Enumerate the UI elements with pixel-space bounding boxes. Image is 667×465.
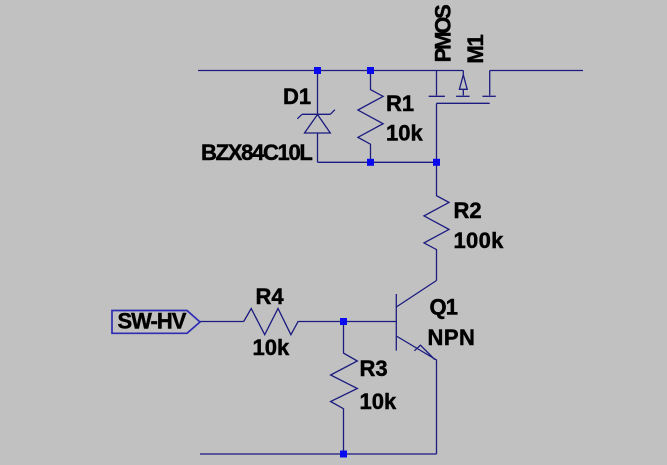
wire bottom rail: [200, 453, 437, 455]
svg-text:PMOS: PMOS: [430, 5, 455, 63]
svg-text:10k: 10k: [360, 389, 397, 414]
wire top rail right: [490, 70, 583, 72]
svg-text:10k: 10k: [253, 335, 290, 360]
svg-text:M1: M1: [463, 34, 488, 63]
wire base: [344, 321, 397, 323]
svg-text:R3: R3: [360, 356, 388, 381]
resistor R3: [331, 322, 358, 455]
wire gate to node: [436, 103, 438, 162]
transistor Q1 emitter arrow: [414, 345, 434, 359]
svg-text:D1: D1: [283, 84, 311, 109]
node D1 top: [314, 67, 321, 74]
resistor R1: [358, 71, 383, 163]
resistor R2: [424, 162, 449, 280]
transistor M1 body arrow: [459, 71, 467, 96]
transistor M1 source bar: [429, 95, 445, 97]
diode D1 zener: [297, 71, 335, 163]
transistor M1 source lead: [436, 71, 438, 96]
node gate junction: [433, 159, 440, 166]
transistor M1 gate plate: [437, 102, 490, 104]
node base junction: [340, 318, 347, 325]
transistor M1 drain bar: [482, 95, 495, 97]
svg-text:100k: 100k: [454, 228, 505, 253]
svg-text:BZX84C10L: BZX84C10L: [201, 140, 312, 165]
svg-text:Q1: Q1: [430, 295, 458, 320]
svg-text:SW-HV: SW-HV: [118, 309, 187, 334]
transistor M1 drain lead: [489, 71, 491, 96]
flag SW-HV: [112, 311, 200, 334]
wire from flag: [200, 321, 244, 323]
svg-text:R1: R1: [386, 91, 414, 116]
node R1 top: [367, 67, 374, 74]
svg-text:R4: R4: [256, 284, 285, 309]
node R3 bottom: [340, 451, 347, 458]
wire top rail left: [198, 70, 463, 72]
resistor R4: [244, 309, 344, 335]
transistor M1 body bar: [456, 95, 470, 97]
transistor Q1 bar: [395, 294, 397, 351]
svg-text:R2: R2: [454, 198, 482, 223]
svg-text:10k: 10k: [386, 121, 423, 146]
svg-text:NPN: NPN: [428, 325, 476, 350]
wire bottom loop: [318, 161, 437, 163]
node R1 bottom: [367, 159, 374, 166]
transistor Q1 collector: [396, 281, 436, 308]
transistor Q1 emitter: [396, 336, 436, 454]
